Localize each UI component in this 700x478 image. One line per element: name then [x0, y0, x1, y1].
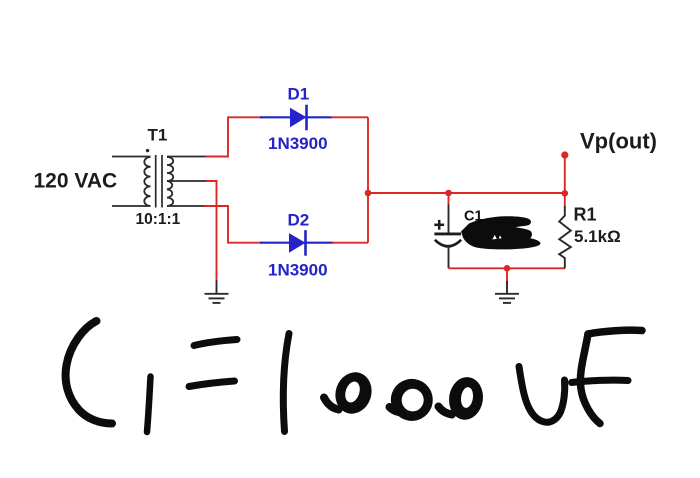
- wire red capacitor top stub: [448, 193, 450, 205]
- wire secondary bottom lead black: [167, 205, 205, 207]
- node output terminal: [561, 151, 568, 158]
- resistor R1: [559, 206, 571, 268]
- svg-text:1N3900: 1N3900: [268, 134, 328, 153]
- wire red center tap to ground: [206, 181, 217, 281]
- wire black capacitor bottom lead: [448, 247, 450, 269]
- svg-text:1N3900: 1N3900: [268, 261, 328, 280]
- wire red ground stub: [506, 268, 508, 281]
- svg-text:Vp(out): Vp(out): [580, 129, 657, 154]
- svg-text:T1: T1: [148, 126, 168, 145]
- wire red D1 to output node: [331, 116, 368, 118]
- capacitor C1 bottom plate: [435, 240, 461, 247]
- capacitor C1 plus sign: [434, 220, 444, 230]
- node junction ground rail: [504, 265, 511, 272]
- transformer T1 polarity dot: [146, 149, 149, 152]
- transformer T1 primary winding: [144, 157, 150, 206]
- wire primary top lead: [112, 156, 151, 158]
- wire red bottom rail: [449, 267, 566, 269]
- handwriting F: [572, 330, 643, 423]
- wire red output drop: [564, 155, 566, 206]
- wire secondary top lead black: [167, 156, 207, 158]
- svg-text:D2: D2: [288, 211, 310, 230]
- node junction resistor: [562, 190, 569, 197]
- handwriting u: [519, 367, 565, 423]
- transformer T1 core: [156, 155, 162, 208]
- wire red output bus: [368, 192, 565, 194]
- wire center tap lead black: [167, 180, 207, 182]
- handwriting o third: [439, 375, 486, 422]
- capacitor C1 top plate: [434, 232, 461, 235]
- handwriting digit 1: [283, 334, 289, 432]
- node junction capacitor: [445, 190, 452, 197]
- svg-text:R1: R1: [574, 205, 597, 225]
- handwriting C: [66, 321, 112, 424]
- handwriting o first: [324, 368, 377, 419]
- handwriting o second: [388, 376, 435, 423]
- transformer T1 secondary winding lower: [167, 181, 173, 206]
- svg-text:D1: D1: [288, 85, 310, 104]
- node junction diodes: [365, 190, 372, 197]
- wire black capacitor top lead: [448, 205, 450, 233]
- svg-text:10:1:1: 10:1:1: [136, 211, 181, 228]
- svg-text:120 VAC: 120 VAC: [34, 170, 118, 193]
- svg-text:5.1kΩ: 5.1kΩ: [574, 227, 621, 246]
- wire red rectifier output riser: [367, 117, 369, 242]
- wire primary bottom lead: [112, 205, 151, 207]
- transformer T1 secondary winding upper: [167, 157, 173, 181]
- ground under transformer: [205, 280, 229, 303]
- diode D2: [260, 230, 333, 256]
- scribble blob over C1 value: [461, 216, 540, 249]
- wire red D2 to output node: [332, 242, 368, 244]
- ground under rail: [495, 281, 519, 303]
- wire red secondary top to D1 riser: [206, 117, 262, 156]
- diode D1: [260, 105, 332, 131]
- wire red secondary bottom to D2: [204, 206, 262, 243]
- handwriting equals bottom bar: [189, 381, 235, 387]
- handwriting subscript 1: [147, 377, 151, 433]
- handwriting equals top bar: [194, 340, 237, 346]
